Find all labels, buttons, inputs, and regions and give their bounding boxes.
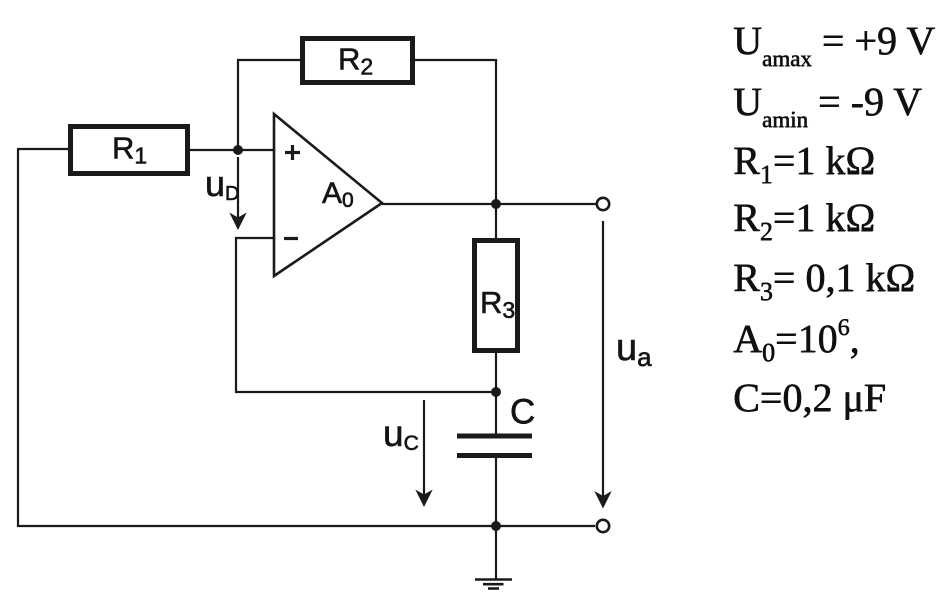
svg-text:uC: uC [383, 413, 419, 455]
svg-text:C: C [510, 393, 535, 432]
svg-text:ua: ua [616, 327, 652, 372]
svg-text:uD: uD [205, 163, 239, 205]
